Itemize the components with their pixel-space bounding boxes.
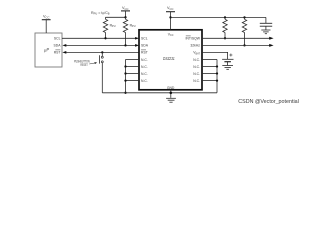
resistor R1 RPU (SCL pull-up) <box>105 17 107 19</box>
ground (battery) <box>222 65 233 67</box>
svg-text:N.C.: N.C. <box>193 72 200 76</box>
battery B1 <box>222 58 233 60</box>
svg-text:RST: RST <box>54 51 61 55</box>
node right bus junctions <box>216 65 218 67</box>
wire bottom ground rail <box>102 92 217 94</box>
node left bus junctions <box>124 65 126 67</box>
wire VCC top rail to capacitor <box>171 16 266 18</box>
svg-text:N.C.: N.C. <box>141 72 148 76</box>
power VCC left rail <box>45 20 47 33</box>
node INT/R3 junction <box>224 37 226 39</box>
svg-text:INT/SQW: INT/SQW <box>185 37 200 41</box>
wire right N.C. bus <box>202 59 217 61</box>
svg-text:GND: GND <box>167 86 175 90</box>
battery B1 plus sign <box>229 54 232 56</box>
wire GND pin to ground <box>170 90 172 98</box>
wire VBAT to battery <box>202 52 228 59</box>
node SDA/R2 junction <box>124 44 126 46</box>
svg-text:DS3231: DS3231 <box>163 56 175 61</box>
wire INT/SQW output <box>202 37 270 39</box>
ground (capacitor) <box>261 29 270 31</box>
node VCC mid junction <box>124 16 126 18</box>
svg-text:SCL: SCL <box>141 37 148 41</box>
svg-text:RESET: RESET <box>80 63 87 67</box>
power VCC right rail <box>170 12 172 30</box>
resistor R4 (32kHz pull-up) <box>243 16 245 18</box>
wire RST bus <box>65 51 139 53</box>
svg-text:µP: µP <box>44 47 50 53</box>
wire left N.C. bus <box>126 59 140 61</box>
wire R1 top to VCC node <box>106 16 126 18</box>
svg-text:N.C.: N.C. <box>193 58 200 62</box>
svg-text:N.C.: N.C. <box>193 65 200 69</box>
node 32kHz/R4 junction <box>243 44 245 46</box>
power VCC mid rail <box>125 11 127 17</box>
wire 32kHz output <box>202 44 270 46</box>
svg-text:VBAT: VBAT <box>193 51 200 56</box>
pushbutton SW1 <box>101 51 103 53</box>
svg-text:SDA: SDA <box>54 44 62 48</box>
op-amp U1 microprocessor box <box>35 33 62 67</box>
ground (GND pin) <box>166 97 176 99</box>
node GND junction <box>170 92 173 95</box>
wire reset arrow <box>89 63 95 64</box>
svg-text:VCC: VCC <box>168 33 174 38</box>
resistor R2 RPU (SDA pull-up) <box>123 19 127 32</box>
wire SDA bus <box>66 44 136 46</box>
svg-text:N.C.: N.C. <box>193 79 200 83</box>
node left bus to rail <box>124 92 126 94</box>
svg-text:N.C.: N.C. <box>141 65 148 69</box>
svg-text:N.C.: N.C. <box>141 79 148 83</box>
node VCC right junction <box>169 16 171 18</box>
svg-text:SCL: SCL <box>54 37 61 41</box>
resistor R3 (INT/SQW pull-up) <box>224 16 226 18</box>
capacitor C1 <box>265 17 267 23</box>
svg-text:SDA: SDA <box>141 44 149 48</box>
svg-text:N.C.: N.C. <box>141 58 148 62</box>
wire SCL bus <box>62 37 136 39</box>
op-amp U2 DS3231 box <box>139 30 202 90</box>
svg-text:CSDN @Vector_potential: CSDN @Vector_potential <box>238 99 298 105</box>
node SCL/R1 junction <box>104 37 106 39</box>
svg-text:RST: RST <box>141 51 148 55</box>
svg-text:32kHz: 32kHz <box>190 44 200 48</box>
